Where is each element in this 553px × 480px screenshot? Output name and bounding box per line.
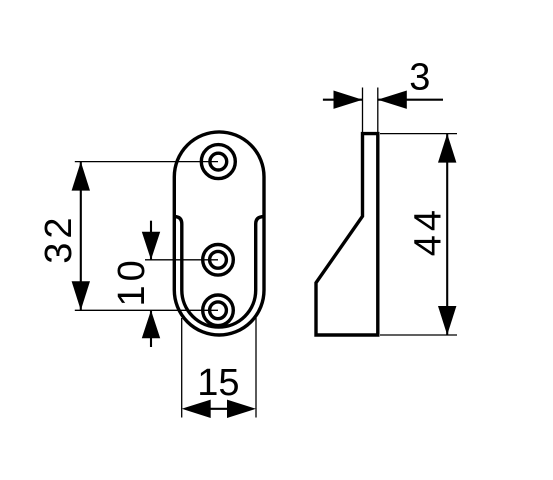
svg-text:32: 32 <box>38 213 80 263</box>
hole bottom outer circle <box>203 295 234 326</box>
svg-text:44: 44 <box>408 206 450 256</box>
extension line 15 left <box>181 318 183 418</box>
hole middle outer circle <box>203 244 234 275</box>
extension line 3 left <box>362 88 364 134</box>
arrow 15 left <box>182 400 211 418</box>
dimension line 44 <box>446 134 448 335</box>
side view profile outline <box>316 134 378 335</box>
extension line 3 right <box>377 88 379 134</box>
dimension line 15 shaft <box>205 408 232 410</box>
dimension line 3 left tail <box>323 99 363 101</box>
extension line top hole center <box>75 161 218 163</box>
dimension line 32 <box>80 162 82 311</box>
arrow 32 top <box>72 162 90 191</box>
svg-text:3: 3 <box>409 56 430 98</box>
hole top inner circle <box>210 153 227 170</box>
dimension line 10 upper tail <box>150 221 152 260</box>
front view inner recess contour <box>174 217 264 327</box>
arrow 44 bottom <box>438 306 456 335</box>
extension line bottom hole center <box>75 309 218 311</box>
extension line 44 top <box>380 133 457 135</box>
extension line 44 bottom <box>380 334 457 336</box>
arrow 3 right <box>378 91 407 109</box>
arrow 44 top <box>438 134 456 163</box>
svg-text:15: 15 <box>197 362 239 404</box>
arrow 10 upper <box>142 232 160 260</box>
extension line middle hole center <box>145 259 218 261</box>
front view outer plate outline <box>174 132 264 335</box>
arrow 32 bottom <box>72 281 90 310</box>
hole middle inner circle <box>210 251 227 268</box>
extension line 15 right <box>255 318 257 418</box>
hole bottom inner circle <box>210 302 227 319</box>
arrow 15 right <box>227 400 256 418</box>
arrow 10 lower <box>142 310 160 338</box>
svg-text:10: 10 <box>111 256 153 306</box>
dimension line 10 lower tail <box>150 310 152 347</box>
dimension line 3 right tail <box>378 99 443 101</box>
arrow 3 left <box>334 91 363 109</box>
hole top outer circle <box>201 145 235 179</box>
